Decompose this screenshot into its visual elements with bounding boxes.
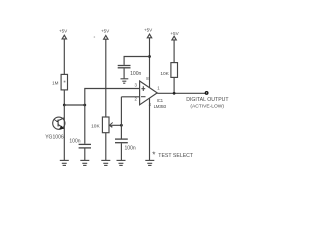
op-amp plus mark bbox=[141, 86, 145, 91]
svg-text:1M: 1M bbox=[52, 80, 59, 85]
node junction wiper bbox=[120, 124, 123, 127]
node junction left bbox=[63, 104, 66, 107]
node junction mid bbox=[83, 104, 86, 107]
transistor Q1 YG1006 phototransistor bbox=[53, 117, 65, 129]
wire pot to ground bbox=[105, 133, 107, 160]
svg-text:+5V: +5V bbox=[170, 31, 179, 36]
svg-text:LM393: LM393 bbox=[154, 104, 167, 109]
terminal output pad bbox=[205, 92, 208, 95]
capacitor C2 100n bbox=[115, 139, 128, 143]
svg-text:8: 8 bbox=[146, 76, 149, 81]
svg-text:4: 4 bbox=[149, 102, 152, 107]
resistor 1M bbox=[61, 74, 67, 90]
svg-text:TEST SELECT: TEST SELECT bbox=[158, 153, 194, 159]
svg-text:3: 3 bbox=[135, 83, 138, 88]
speck artifact bbox=[94, 36, 96, 38]
svg-text:10K: 10K bbox=[91, 124, 100, 130]
ground below C3 bbox=[121, 79, 129, 83]
artifact mark inside 1M bbox=[64, 81, 66, 83]
potentiometer 10K bbox=[102, 117, 121, 133]
svg-text:(ACTIVE-LOW): (ACTIVE-LOW) bbox=[190, 103, 224, 109]
wire bypass branch bbox=[124, 57, 149, 65]
node junction bypass bbox=[148, 55, 151, 58]
op-amp minus mark bbox=[141, 96, 146, 98]
power +5V rail C bbox=[147, 34, 151, 88]
svg-text:100n: 100n bbox=[69, 139, 80, 145]
wire pin4 to ground bbox=[149, 98, 151, 160]
wire riser to +input pin 3 bbox=[85, 89, 140, 106]
ground below Q1 bbox=[60, 160, 69, 165]
power +5V rail B bbox=[104, 36, 108, 118]
power +5V rail D bbox=[172, 36, 176, 62]
wire 1M bottom to node bbox=[63, 90, 65, 105]
op-amp IC1 LM393 comparator bbox=[140, 81, 158, 105]
wire node down to C1 bbox=[84, 105, 86, 144]
ground below C1 bbox=[80, 160, 89, 165]
svg-text:2: 2 bbox=[135, 97, 138, 102]
wire transistor column bbox=[63, 105, 65, 160]
svg-text:+5V: +5V bbox=[59, 29, 68, 34]
wire pullup to output bbox=[173, 77, 175, 93]
svg-text:100n: 100n bbox=[130, 71, 141, 77]
svg-text:DIGITAL OUTPUT: DIGITAL OUTPUT bbox=[186, 97, 229, 103]
svg-text:+5V: +5V bbox=[144, 28, 153, 33]
wire node horizontal bbox=[64, 104, 85, 106]
wire output bbox=[157, 92, 205, 94]
capacitor C3 100n bypass bbox=[118, 66, 131, 68]
wire to -input pin 2 bbox=[121, 96, 139, 98]
svg-text:1: 1 bbox=[157, 86, 160, 91]
svg-text:10K: 10K bbox=[160, 71, 169, 77]
wire C2 to ground bbox=[120, 143, 122, 160]
wire C3 to ground bbox=[123, 68, 125, 78]
svg-text:*: * bbox=[152, 150, 156, 159]
ground below pot bbox=[101, 160, 110, 165]
ground below C2 bbox=[117, 160, 126, 165]
svg-text:100n: 100n bbox=[125, 145, 136, 151]
capacitor C1 100n bbox=[79, 144, 91, 148]
wire wiper node vertical bbox=[120, 97, 122, 139]
power +5V rail A bbox=[62, 35, 66, 74]
ground below IC1 pin4 bbox=[145, 160, 154, 165]
svg-text:YG1006: YG1006 bbox=[45, 135, 64, 141]
svg-text:IC1: IC1 bbox=[157, 98, 164, 103]
node junction output bbox=[173, 92, 176, 95]
resistor 10K pullup bbox=[171, 63, 178, 78]
wire C1 to ground bbox=[84, 149, 86, 161]
svg-text:+5V: +5V bbox=[101, 29, 110, 34]
